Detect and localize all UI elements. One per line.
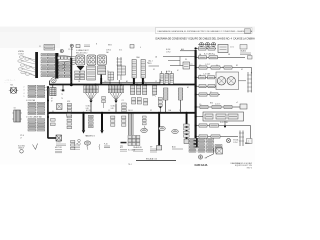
svg-text:CONJ: CONJ bbox=[166, 51, 171, 53]
svg-text:CJ 12: CJ 12 bbox=[230, 47, 234, 49]
svg-text:12: 12 bbox=[155, 81, 157, 83]
svg-text:ESCALA 1:10: ESCALA 1:10 bbox=[146, 157, 157, 160]
svg-text:P2: P2 bbox=[191, 64, 193, 66]
svg-text:P-10: P-10 bbox=[104, 144, 108, 146]
svg-text:A04: A04 bbox=[181, 48, 184, 51]
svg-text:B2: B2 bbox=[236, 65, 238, 67]
svg-text:B6: B6 bbox=[143, 81, 145, 83]
svg-text:A1 B2: A1 B2 bbox=[86, 109, 91, 112]
svg-text:C-2 LT: C-2 LT bbox=[205, 64, 211, 66]
svg-text:E-5: E-5 bbox=[120, 147, 123, 149]
svg-text:A2: A2 bbox=[126, 80, 128, 83]
svg-text:B-3 CABLE: B-3 CABLE bbox=[204, 53, 214, 56]
svg-text:SOL: SOL bbox=[119, 50, 122, 52]
svg-text:CAJA FUS: CAJA FUS bbox=[133, 146, 142, 149]
svg-text:- . , . - . , -: - . , . - . , - bbox=[4, 82, 11, 84]
svg-text:D4 E1: D4 E1 bbox=[128, 110, 133, 112]
svg-text:6: 6 bbox=[140, 47, 141, 49]
svg-text:F2: F2 bbox=[150, 110, 152, 112]
svg-text:1-4: 1-4 bbox=[70, 81, 73, 83]
svg-text:CONJ: CONJ bbox=[18, 53, 23, 55]
svg-text:E-204: E-204 bbox=[166, 49, 170, 51]
svg-text:DIAGRAMA DE CONEXIONES Y EQUIP: DIAGRAMA DE CONEXIONES Y EQUIPO DE CABLE… bbox=[156, 38, 256, 41]
svg-text:CAB CAJA: CAB CAJA bbox=[195, 164, 208, 167]
svg-text:CAJA 4: CAJA 4 bbox=[240, 50, 246, 53]
svg-text:TABLERO 2: TABLERO 2 bbox=[85, 135, 95, 138]
svg-text:K4: K4 bbox=[52, 111, 54, 113]
svg-text:CJ: CJ bbox=[39, 46, 41, 48]
svg-text:TS-1: TS-1 bbox=[128, 164, 132, 166]
svg-text:1 CONJ CABLE TAB: 1 CONJ CABLE TAB bbox=[26, 115, 42, 118]
svg-text:REV 3: REV 3 bbox=[247, 167, 252, 169]
svg-text:x2: x2 bbox=[236, 102, 238, 104]
svg-text:P1: P1 bbox=[107, 71, 109, 73]
svg-text:W-12: W-12 bbox=[245, 143, 249, 145]
svg-text:CONJ: CONJ bbox=[233, 142, 238, 144]
svg-text:R4: R4 bbox=[185, 59, 187, 61]
svg-text:CONJ 3: CONJ 3 bbox=[111, 106, 117, 108]
svg-text:MOTOR: MOTOR bbox=[55, 147, 62, 149]
svg-text:C3: C3 bbox=[108, 110, 110, 112]
svg-text:C-6 GAS: C-6 GAS bbox=[203, 73, 211, 76]
svg-text:S2: S2 bbox=[153, 69, 155, 71]
svg-text:. , - s a . c - , . r .: . , - s a . c - , . r . bbox=[4, 80, 16, 82]
svg-text:CON 4: CON 4 bbox=[106, 50, 111, 52]
svg-text:DIAGRAMA DE CAJA NEGRA, EL SIS: DIAGRAMA DE CAJA NEGRA, EL SISTEMA ELECT… bbox=[158, 30, 253, 33]
svg-text:T2: T2 bbox=[60, 90, 62, 92]
svg-text:H2: H2 bbox=[241, 69, 243, 71]
svg-text:G2: G2 bbox=[14, 108, 16, 110]
svg-text:D-2 LT: D-2 LT bbox=[215, 103, 221, 105]
svg-text:CABLE: CABLE bbox=[18, 147, 25, 150]
svg-text:REL A4 CON 2: REL A4 CON 2 bbox=[76, 52, 87, 55]
svg-text:CONJ 2: CONJ 2 bbox=[86, 106, 92, 108]
svg-text:LT2: LT2 bbox=[122, 100, 125, 102]
svg-text:B2: B2 bbox=[51, 98, 53, 100]
svg-text:T4: T4 bbox=[61, 98, 63, 100]
svg-text:E-206: E-206 bbox=[166, 71, 170, 73]
svg-text:C4 D1: C4 D1 bbox=[104, 81, 109, 83]
svg-text:B-12: B-12 bbox=[74, 144, 78, 146]
svg-text:M4: M4 bbox=[11, 85, 13, 87]
svg-text:T3: T3 bbox=[61, 94, 63, 96]
svg-text:F-8 CONJ: F-8 CONJ bbox=[220, 122, 228, 124]
svg-text:CONJ: CONJ bbox=[56, 142, 61, 144]
